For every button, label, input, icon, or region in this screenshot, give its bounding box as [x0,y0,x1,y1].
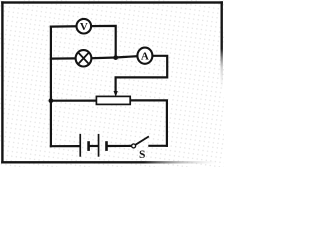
wire: rheostat left branch [51,99,97,101]
battery cell 2 long plate [98,134,100,157]
svg-text:A: A [141,51,149,63]
wire: battery to switch [107,145,131,147]
battery cell 2 short plate [105,141,108,151]
svg-text:V: V [80,21,88,33]
wire: lamp to junction to ammeter [91,56,137,58]
border frame right (fades out downward) [221,1,223,96]
wire: lamp branch left [51,57,76,59]
wire: left vertical bus [50,27,52,147]
wire: bottom left to battery [51,145,80,147]
lamp L1 cross [78,52,89,64]
wire: top branch right + drop to lamp branch [91,26,116,58]
ammeter A1 circle [137,48,152,64]
battery cell 1 long plate [79,134,81,157]
border frame top [1,1,223,3]
wire: switch right terminal [149,145,167,147]
node: rheostat branch / left bus junction [49,98,54,103]
switch S lever [136,136,149,144]
background halftone paper [0,0,224,167]
voltmeter V1 circle [77,19,92,34]
border frame left [1,1,3,163]
switch S pivot circle [132,144,136,148]
border frame bottom (fades out rightward) [1,161,217,163]
battery cell 1 short plate [87,141,90,151]
node: voltmeter branch / lamp branch junction [113,55,118,60]
wire: between battery cells [90,145,98,147]
rheostat R1 wiper arrowhead [114,91,118,97]
wire: ammeter out, down, left, down to wiper [116,56,168,92]
wire: top branch left (to voltmeter) [51,25,77,28]
wire: rheostat right branch down to bottom [130,100,167,146]
lamp L1 circle [76,50,92,66]
svg-text:S: S [139,149,145,161]
rheostat R1 body [96,96,130,104]
